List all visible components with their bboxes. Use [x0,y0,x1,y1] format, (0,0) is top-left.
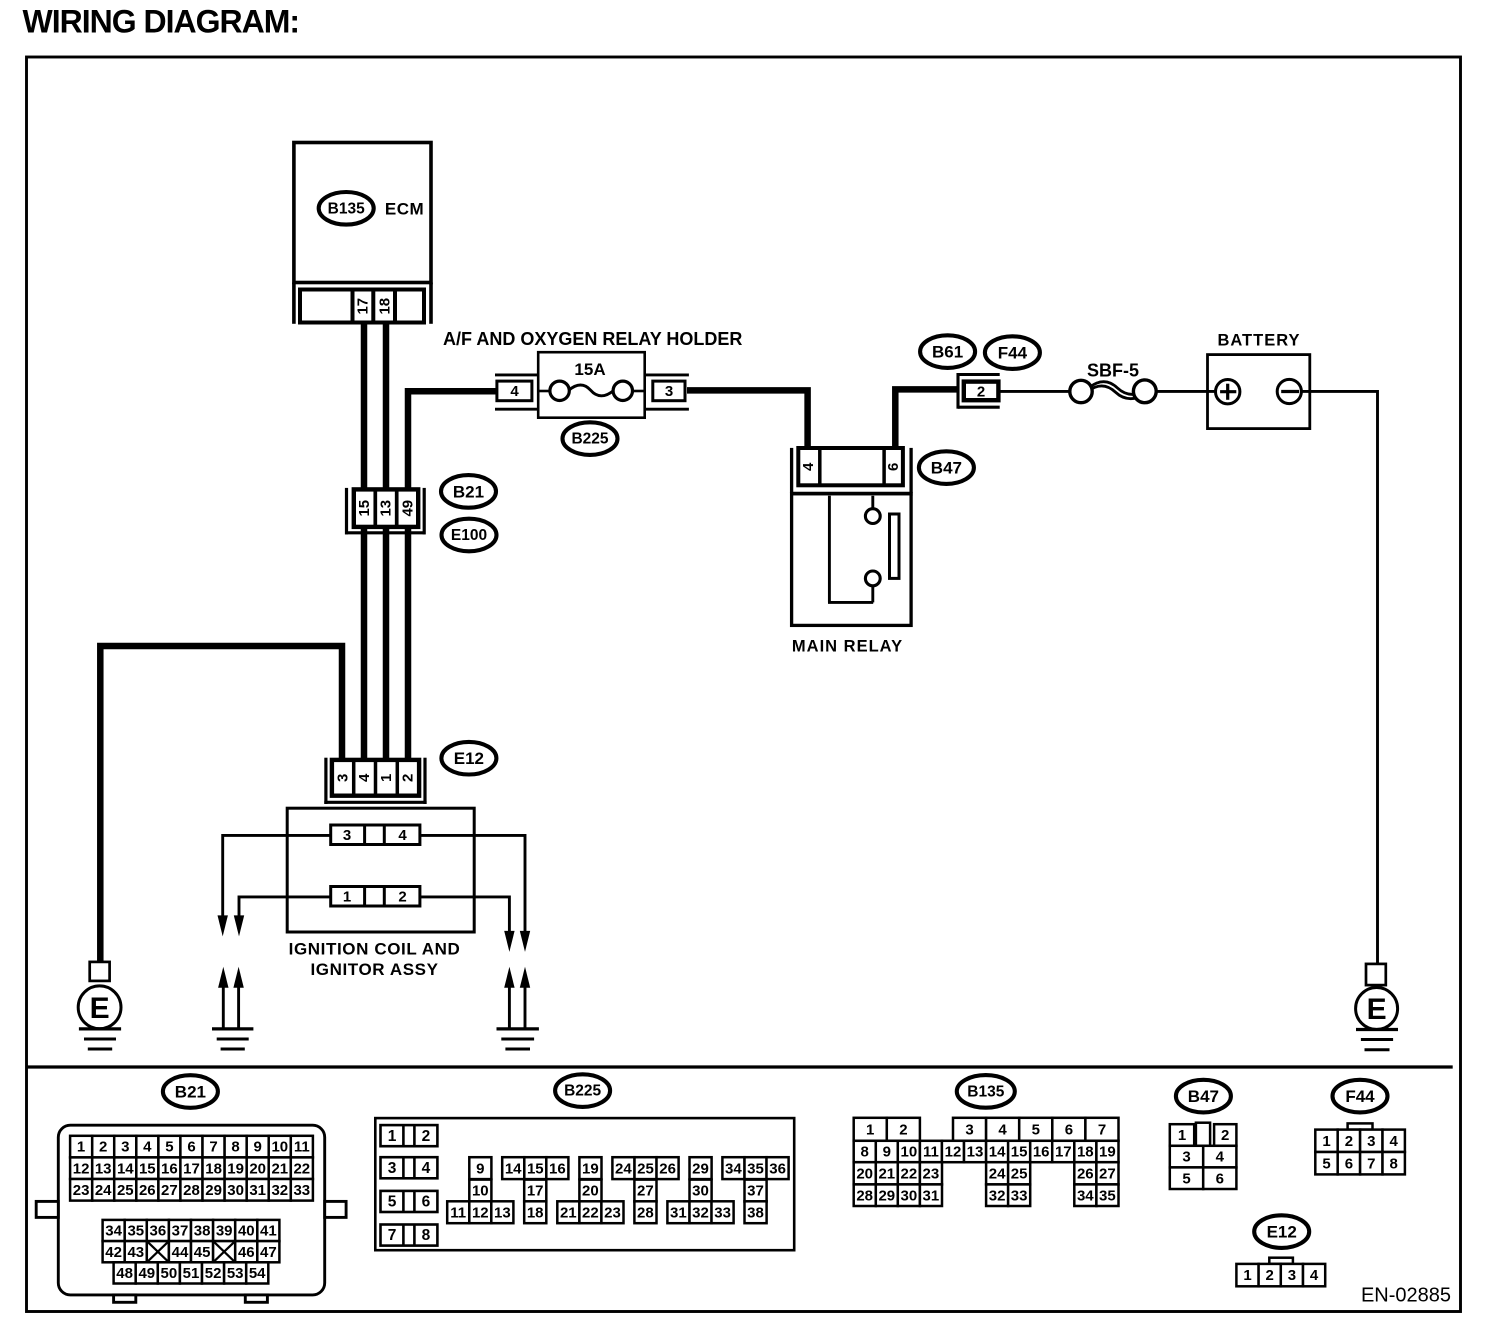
svg-text:28: 28 [856,1187,873,1204]
svg-text:48: 48 [116,1265,133,1282]
svg-text:13: 13 [494,1204,511,1221]
svg-text:5: 5 [1322,1155,1330,1172]
svg-text:21: 21 [878,1165,895,1182]
svg-text:36: 36 [769,1160,786,1177]
svg-text:26: 26 [659,1160,676,1177]
svg-text:15A: 15A [574,360,605,379]
svg-text:1: 1 [388,1128,397,1145]
svg-text:45: 45 [194,1244,211,1261]
svg-text:40: 40 [238,1223,255,1240]
svg-text:22: 22 [582,1204,599,1221]
connector oval B47 [919,451,974,484]
svg-text:5: 5 [1182,1170,1190,1187]
svg-text:B47: B47 [1188,1087,1219,1106]
svg-text:10: 10 [901,1144,918,1161]
svg-text:4: 4 [143,1139,152,1156]
svg-text:23: 23 [923,1165,940,1182]
svg-text:2: 2 [1345,1133,1353,1150]
svg-text:1: 1 [343,888,351,905]
ECM connector bracket [294,283,431,324]
svg-text:4: 4 [510,383,519,400]
svg-text:7: 7 [388,1227,397,1244]
svg-text:33: 33 [1011,1187,1028,1204]
label ECM [385,199,424,218]
coil connector pins 1 2 [331,887,420,907]
svg-text:25: 25 [117,1182,134,1199]
svg-text:19: 19 [227,1160,244,1177]
svg-text:10: 10 [271,1139,288,1156]
svg-text:13: 13 [967,1144,984,1161]
svg-text:16: 16 [549,1160,566,1177]
svg-text:17: 17 [527,1183,544,1200]
svg-text:30: 30 [901,1187,918,1204]
wire connector pin2 to fuse SBF-5 [1000,390,1071,393]
svg-text:4: 4 [422,1160,431,1177]
svg-text:14: 14 [505,1160,522,1177]
svg-text:26: 26 [1077,1165,1094,1182]
svg-text:12: 12 [945,1144,962,1161]
svg-text:B225: B225 [571,431,608,448]
svg-text:4: 4 [800,462,817,471]
fuse pin 3 terminal [646,375,689,409]
svg-text:E: E [1367,993,1387,1026]
svg-text:B135: B135 [967,1083,1004,1100]
ground symbol right [1356,1030,1398,1050]
svg-text:33: 33 [293,1182,310,1199]
connector oval B47 pinout [1176,1080,1231,1113]
wire connector pin2 to main relay pin6 [895,389,958,450]
svg-text:21: 21 [560,1204,577,1221]
svg-text:35: 35 [127,1223,144,1240]
svg-text:8: 8 [422,1227,431,1244]
svg-text:1: 1 [1243,1267,1251,1284]
svg-text:5: 5 [165,1139,173,1156]
svg-text:20: 20 [582,1183,599,1200]
connector oval E100 [442,519,497,552]
svg-text:4: 4 [998,1121,1007,1138]
main relay body [790,494,913,626]
svg-text:24: 24 [615,1160,632,1177]
svg-text:5: 5 [388,1194,397,1211]
svg-text:B225: B225 [564,1083,601,1100]
svg-text:IGNITOR ASSY: IGNITOR ASSY [310,960,438,979]
title WIRING DIAGRAM [23,4,300,40]
battery minus terminal [1277,379,1301,403]
svg-text:15: 15 [139,1160,156,1177]
ground terminal box left [90,962,110,981]
spark gap arrows up right [504,967,530,1028]
svg-text:27: 27 [1099,1165,1116,1182]
svg-text:17: 17 [1055,1144,1072,1161]
svg-text:34: 34 [1077,1187,1094,1204]
svg-text:7: 7 [1098,1121,1106,1138]
svg-text:20: 20 [249,1160,266,1177]
svg-text:51: 51 [183,1265,200,1282]
svg-text:18: 18 [1077,1144,1094,1161]
connector E12 pinout with pins 1-4 [1236,1258,1325,1287]
wire E12 pin3 to ground E loop [100,646,342,963]
connector oval B21 pinout [163,1075,218,1108]
svg-text:8: 8 [1390,1155,1398,1172]
svg-text:WIRING DIAGRAM:: WIRING DIAGRAM: [23,4,300,40]
connector B21/E100 bracket [345,488,425,535]
svg-text:29: 29 [205,1182,222,1199]
svg-text:3: 3 [1367,1133,1375,1150]
svg-text:15: 15 [1011,1144,1028,1161]
label BATTERY [1217,332,1300,350]
svg-text:BATTERY: BATTERY [1217,332,1300,350]
connector B21/E100 with pins 15 13 49 [354,489,418,527]
svg-text:31: 31 [670,1204,687,1221]
ECM connector with pins 17 18 [300,290,424,323]
wire coil pin3 to spark plug left [223,835,330,924]
main relay connector bracket [792,448,912,493]
main relay connector with pins 4 6 [798,448,903,485]
svg-text:18: 18 [527,1204,544,1221]
spark output arrows down left [218,915,245,936]
svg-text:17: 17 [183,1160,200,1177]
svg-text:2: 2 [1266,1267,1274,1284]
ground E circle right [1356,988,1398,1030]
svg-text:28: 28 [637,1204,654,1221]
svg-text:F44: F44 [998,344,1028,363]
svg-text:3: 3 [343,827,351,844]
wire fuse SBF-5 to battery plus [1155,390,1216,393]
svg-text:6: 6 [1216,1170,1224,1187]
svg-text:23: 23 [604,1204,621,1221]
separator line between schematic and pinouts [27,1065,1453,1068]
svg-text:14: 14 [989,1144,1006,1161]
svg-text:11: 11 [450,1204,466,1221]
svg-text:29: 29 [692,1160,709,1177]
svg-text:E100: E100 [451,527,487,544]
svg-text:12: 12 [472,1204,489,1221]
connector B135 pinout with pins 1-35 [854,1118,1119,1206]
svg-text:35: 35 [747,1160,764,1177]
connector oval E12 [441,742,496,775]
svg-text:38: 38 [747,1204,764,1221]
svg-text:50: 50 [161,1265,178,1282]
ground symbol below left arrows [212,1029,253,1049]
svg-text:3: 3 [1182,1149,1190,1166]
svg-text:19: 19 [582,1160,599,1177]
svg-text:19: 19 [1099,1144,1116,1161]
spark gap arrows up left [218,967,244,1028]
svg-text:22: 22 [901,1165,918,1182]
connector B225 pinout with pins 1-38 [375,1118,794,1250]
svg-text:37: 37 [172,1223,189,1240]
wire battery minus to ground E right [1301,391,1378,963]
connector oval B135 pinout [957,1075,1015,1108]
ECM box [294,143,431,283]
svg-text:25: 25 [637,1160,654,1177]
svg-text:11: 11 [923,1144,939,1161]
svg-text:6: 6 [187,1139,195,1156]
label SBF-5 [1087,361,1139,381]
svg-text:B135: B135 [328,200,365,217]
svg-text:17: 17 [355,298,372,315]
svg-text:16: 16 [161,1160,178,1177]
connector B21 pinout housing and pins 1-54 [36,1125,346,1302]
svg-text:3: 3 [665,383,673,400]
connector oval B135 at ECM [319,192,374,225]
svg-text:B21: B21 [453,482,484,501]
svg-text:F44: F44 [1345,1087,1375,1106]
svg-text:20: 20 [856,1165,873,1182]
svg-text:2: 2 [899,1121,907,1138]
wire ECM pin17 to B21 pin15 [361,322,368,762]
svg-text:7: 7 [209,1139,217,1156]
svg-text:3: 3 [121,1139,129,1156]
svg-text:24: 24 [95,1182,112,1199]
svg-text:15: 15 [356,500,373,517]
svg-text:15: 15 [527,1160,544,1177]
svg-text:27: 27 [637,1183,654,1200]
svg-text:9: 9 [476,1160,484,1177]
svg-text:3: 3 [1288,1267,1296,1284]
connector E12 with pins 3 4 1 2 [332,760,419,796]
coil connector pins 3 4 [331,825,420,845]
svg-text:A/F AND OXYGEN RELAY HOLDER: A/F AND OXYGEN RELAY HOLDER [443,329,742,349]
svg-text:13: 13 [378,500,395,517]
svg-text:46: 46 [238,1244,255,1261]
wire coil pin1 to spark plug left [239,897,330,924]
svg-text:29: 29 [878,1187,895,1204]
ground symbol below right arrows [497,1029,539,1049]
svg-text:30: 30 [227,1182,244,1199]
svg-text:1: 1 [77,1139,85,1156]
svg-text:4: 4 [1390,1133,1399,1150]
svg-text:ECM: ECM [385,199,424,218]
svg-text:9: 9 [254,1139,262,1156]
svg-text:24: 24 [989,1165,1006,1182]
svg-text:34: 34 [105,1223,122,1240]
svg-text:4: 4 [1310,1267,1319,1284]
svg-text:28: 28 [183,1182,200,1199]
wire coil pin2 to spark plug right [421,897,509,940]
svg-text:13: 13 [95,1160,112,1177]
svg-text:2: 2 [422,1128,431,1145]
svg-text:7: 7 [1367,1155,1375,1172]
label IGNITION COIL AND IGNITOR ASSY [289,940,461,980]
svg-text:2: 2 [400,774,417,782]
svg-text:E12: E12 [1267,1223,1297,1242]
svg-text:16: 16 [1033,1144,1050,1161]
svg-text:MAIN RELAY: MAIN RELAY [792,638,903,656]
connector F44 pinout with pins 1-8 [1315,1123,1405,1174]
svg-text:31: 31 [249,1182,266,1199]
svg-text:E12: E12 [454,749,484,768]
ground terminal box right [1366,964,1386,985]
connector pin 2 terminal [958,373,1000,409]
battery box [1208,355,1310,429]
svg-text:35: 35 [1099,1187,1116,1204]
svg-text:2: 2 [99,1139,107,1156]
connector B47 pinout with pins 1-6 [1170,1123,1237,1189]
svg-text:5: 5 [1032,1121,1040,1138]
fuse element 15A [539,381,644,400]
svg-text:1: 1 [378,774,395,782]
main relay internal coil and contacts [828,496,899,603]
svg-text:2: 2 [1221,1127,1229,1144]
svg-text:30: 30 [692,1183,709,1200]
connector oval B61 [920,335,975,368]
svg-text:14: 14 [117,1160,134,1177]
svg-text:6: 6 [885,463,902,471]
svg-text:26: 26 [139,1182,156,1199]
svg-text:32: 32 [271,1182,288,1199]
svg-text:1: 1 [1322,1133,1330,1150]
fuse pin 4 terminal [495,375,538,409]
svg-text:52: 52 [205,1265,222,1282]
svg-text:39: 39 [216,1223,233,1240]
connector oval B225 [563,422,618,455]
svg-text:SBF-5: SBF-5 [1087,361,1139,381]
svg-text:3: 3 [965,1121,973,1138]
svg-text:32: 32 [989,1187,1006,1204]
label EN-02885 [1361,1285,1451,1307]
svg-text:3: 3 [334,774,351,782]
svg-text:E: E [90,992,110,1025]
svg-text:49: 49 [138,1265,155,1282]
svg-text:1: 1 [1178,1127,1186,1144]
connector oval E12 pinout [1254,1215,1309,1248]
svg-text:12: 12 [73,1160,90,1177]
svg-text:36: 36 [150,1223,167,1240]
connector oval B225 pinout [555,1074,610,1107]
svg-text:38: 38 [194,1223,211,1240]
svg-text:6: 6 [422,1194,431,1211]
ignition coil box [287,808,474,932]
svg-text:9: 9 [883,1144,891,1161]
svg-text:6: 6 [1345,1155,1353,1172]
svg-text:2: 2 [977,383,985,400]
connector oval F44 [985,336,1040,369]
svg-text:6: 6 [1065,1121,1073,1138]
ground E circle left [78,986,121,1029]
svg-text:53: 53 [227,1265,244,1282]
svg-text:41: 41 [260,1223,277,1240]
svg-text:34: 34 [725,1160,742,1177]
svg-text:54: 54 [249,1265,266,1282]
wire coil pin4 to spark plug right [421,835,525,940]
connector oval B21 [441,475,496,508]
svg-text:31: 31 [923,1187,940,1204]
svg-text:11: 11 [294,1139,310,1156]
svg-text:43: 43 [127,1244,144,1261]
svg-text:33: 33 [714,1204,731,1221]
svg-text:4: 4 [398,827,407,844]
label A/F AND OXYGEN RELAY HOLDER [443,329,742,349]
svg-text:2: 2 [398,888,406,905]
svg-text:18: 18 [205,1160,222,1177]
svg-text:B21: B21 [175,1083,206,1102]
wire fuse pin3 to main relay pin4 [687,390,808,450]
svg-text:IGNITION COIL AND: IGNITION COIL AND [289,940,461,959]
svg-text:27: 27 [161,1182,178,1199]
svg-text:49: 49 [400,500,417,517]
svg-text:32: 32 [692,1204,709,1221]
svg-text:47: 47 [260,1244,277,1261]
svg-text:B47: B47 [931,459,962,478]
svg-text:23: 23 [73,1182,90,1199]
svg-text:18: 18 [377,298,394,315]
svg-text:8: 8 [861,1144,869,1161]
svg-text:42: 42 [105,1244,122,1261]
wire ECM pin18 to B21 pin13 [383,322,390,762]
svg-text:EN-02885: EN-02885 [1361,1285,1451,1307]
svg-text:B61: B61 [932,343,963,362]
svg-text:8: 8 [231,1139,239,1156]
connector oval F44 pinout [1333,1080,1388,1113]
svg-text:21: 21 [271,1160,288,1177]
battery plus terminal [1216,380,1240,404]
wire fuse pin4 to B21 pin49 [408,391,498,762]
svg-text:22: 22 [293,1160,310,1177]
label 15A [574,360,605,379]
svg-text:25: 25 [1011,1165,1028,1182]
spark output arrows down right [504,931,530,952]
svg-text:44: 44 [172,1244,189,1261]
label MAIN RELAY [792,638,903,656]
svg-text:10: 10 [472,1183,489,1200]
svg-text:4: 4 [1216,1149,1225,1166]
connector E12 bracket [324,758,426,804]
fuse holder box B225 [538,352,645,418]
svg-text:4: 4 [356,773,373,782]
svg-text:3: 3 [388,1160,397,1177]
svg-text:37: 37 [747,1183,764,1200]
svg-text:1: 1 [866,1121,874,1138]
fuse SBF-5 [1070,380,1156,403]
ground symbol left [79,1029,121,1049]
